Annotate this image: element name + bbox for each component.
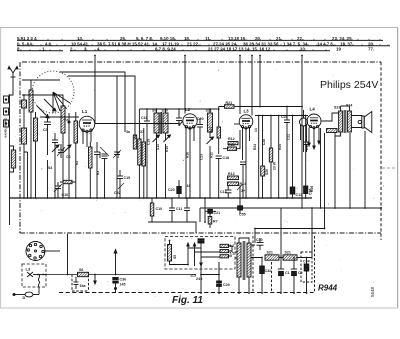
wire L2 drops [186,143,190,198]
junction dots IF strip [146,106,307,199]
svg-text:C10: C10 [62,193,69,197]
wire S10 drop [165,144,167,198]
wire HT riser x281 [280,208,282,258]
wire loop y72 [60,72,125,95]
wire loop y76 [68,76,135,98]
wire L4 plate [321,113,339,121]
bottom bus [59,292,314,294]
wire top feed x240 [239,56,241,115]
AVC wire y109 [139,109,218,128]
trimmer C27 [237,184,243,198]
svg-text:C2: C2 [298,271,303,275]
junction top x240 [239,55,241,57]
choke S21 [265,255,279,260]
mains transformer core [243,241,245,280]
svg-text:C13: C13 [296,193,303,197]
wire S1 top [22,80,31,90]
tube L1 pins [83,131,91,147]
svg-text:5 91 2 3 4: 5 91 2 3 4 [17,36,37,41]
padder C19 [113,150,121,198]
svg-text:C20: C20 [168,188,175,192]
resistor R13b [150,198,154,222]
svg-text:L4: L4 [310,107,316,112]
pointer arrow up [114,250,117,275]
capacitor C8 [94,142,100,198]
wire grid L4 [303,110,305,152]
plug D [13,287,39,297]
svg-text:9 10 16.: 9 10 16. [160,36,176,41]
capacitor C24 [284,107,290,199]
ruler line C [17,50,330,52]
capacitor C26b [304,136,310,152]
svg-text:C22: C22 [287,134,291,140]
capacitor C6 [44,114,51,133]
wire S10 leads [165,109,167,140]
dashed guard x271 [271,262,273,293]
tube L1 [79,116,95,132]
wire socket lead [45,250,60,252]
svg-text:R19: R19 [305,144,309,150]
svg-text:C15: C15 [124,176,131,180]
output transformer primary S23 [339,111,343,132]
capacitor C18a [216,156,222,198]
trap Fz [68,113,70,123]
tuning gang (dashed circle) [32,71,74,113]
AVC wire y123.5 [95,123,179,125]
svg-text:19: 19 [336,46,341,51]
svg-text:S24: S24 [346,104,352,108]
wire R1 [75,112,77,198]
svg-text:23. 24. 25.: 23. 24. 25. [332,36,353,41]
flexible lead [38,275,39,288]
wire mains drop x200 [200,266,202,293]
ruler line A [17,39,383,41]
junction dots left bus [9,94,145,199]
resistor R12 [228,142,238,145]
wire S2 [35,112,37,198]
junction top x185 [184,55,186,57]
resistor R1 [74,121,78,143]
page edge left [0,28,2,309]
wire osc feed verticals [117,76,135,150]
capacitor C30 [257,238,264,250]
wiper arrow [94,275,96,285]
coil S7 [133,135,136,149]
wire S11 drop [209,146,211,198]
capacitor C35 [74,277,79,289]
wire top feed x185 [184,56,186,114]
capacitor C1 electrolytic [278,258,284,294]
wire top feed x302 [301,56,303,209]
wire choke link [279,208,312,258]
svg-text:L2: L2 [185,107,191,112]
junction top x95 [94,55,96,57]
svg-text:Philips 254V: Philips 254V [320,79,378,91]
IF coil S10 [163,113,168,133]
svg-text:R21: R21 [226,101,233,105]
svg-text:R14: R14 [240,182,247,186]
dashed guard x253 [252,236,254,293]
svg-text:C24: C24 [281,115,288,119]
mains transformer T primary [237,243,241,277]
dashed guard x314 [314,236,316,293]
svg-text:C55: C55 [239,213,246,217]
svg-text:14 4 7 6.: 14 4 7 6. [317,41,334,46]
capacitor C34 dashed cell [301,252,312,293]
IF core [160,112,161,134]
svg-text:245: 245 [196,277,202,281]
junction dots AVC [116,123,180,125]
switch contact arrow b [64,145,71,152]
capacitor C7 [52,133,58,150]
wire prim return [335,132,341,208]
chassis boundary left dash-dot [19,62,21,233]
svg-text:AANSLUITING: AANSLUITING [4,117,8,138]
svg-text:C11: C11 [176,207,182,211]
mains resistor R5 [220,250,229,253]
svg-text:4 6.: 4 6. [45,41,52,46]
wire diode taps [301,125,307,140]
selector wiring [188,239,232,258]
resistor R14 [228,182,239,186]
wire transformer taps [235,238,249,293]
svg-text:C32: C32 [265,269,272,273]
junction dots sub [204,197,241,223]
wire C6 drop [47,133,49,198]
wire S16 taps [10,146,14,172]
resistor R21 [225,105,235,109]
loudspeaker box L3 dashed [22,264,46,287]
svg-text:R17: R17 [209,126,213,133]
dashed drop x67.5 [67,234,69,274]
svg-text:2.: 2. [70,46,74,51]
tube L4 [307,114,321,129]
svg-text:26.: 26. [120,36,126,41]
trimmer cap C6 [57,144,65,158]
svg-text:13 18 16: 13 18 16 [228,36,246,41]
svg-text:R11: R11 [210,152,214,158]
switch arrow S10 [164,135,171,142]
wire L1 cathode resistor drop [89,142,91,198]
terminal strip E [22,100,27,108]
svg-text:S23: S23 [334,106,340,110]
svg-text:7 51 8 38 H 15 52 41.: 7 51 8 38 H 15 52 41. [108,41,150,46]
wire y80 left [22,79,60,81]
capacitor C36 [113,278,118,293]
capacitor C14 [225,186,232,198]
wire HT feed [251,229,262,258]
svg-text:C34: C34 [303,260,310,264]
wire osc coil drops [135,128,144,198]
svg-text:5. 6. 7 8.: 5. 6. 7 8. [136,36,153,41]
capacitor C17 [176,109,183,126]
svg-text:34a: 34a [80,284,87,288]
resistor R2 [89,147,93,168]
capacitor C21 electrolytic [205,198,216,222]
svg-text:R26: R26 [310,186,314,192]
resistor R9 [60,180,76,183]
wire left column [23,95,25,198]
capacitor C29 [217,281,222,286]
ground bus [10,197,313,199]
svg-text:C36: C36 [120,278,127,282]
junction dots right rail [301,106,382,209]
capacitor C20 [197,118,203,198]
wire antenna lead [10,87,14,95]
mains resistor R4 [220,244,229,247]
svg-text:R15: R15 [165,146,169,152]
svg-text:S21: S21 [285,251,291,255]
tube L3 [239,115,253,129]
wire v278 [278,116,280,199]
svg-text:20.: 20. [255,36,261,41]
svg-text:5.2: 5.2 [230,244,235,248]
wire mid drops [55,122,69,198]
svg-text:22.: 22. [297,36,303,41]
svg-text:S21: S21 [267,251,273,255]
capacitor C32 electrolytic [260,258,265,294]
aerial terminal block [4,96,9,127]
B+ wire y103 [240,106,302,108]
wire sec return [349,133,351,208]
page edge right [397,28,399,309]
gang trimmer arrow 2 [44,99,56,111]
svg-text:C10: C10 [156,207,163,211]
mains coil S5 [168,241,189,265]
scan speckle [15,59,384,296]
svg-text:R25: R25 [278,144,282,150]
svg-text:C23: C23 [200,154,204,160]
svg-text:21 27 24 18 17 13 14. 15. 16 1: 21 27 24 18 17 13 14. 15. 16 12 [208,46,271,51]
tube L3 pins [243,128,250,146]
voice coil X [27,272,33,277]
svg-text:1.: 1. [42,46,46,51]
resistor R18 [228,147,237,150]
interference cap C16b [198,239,204,243]
chassis boundary bottom dash-dot [20,232,381,234]
svg-text:C21: C21 [214,211,221,215]
voltage selector box dashed [165,237,235,270]
wire mains cross [201,262,219,275]
junction dots bottom [37,207,325,294]
main bottom wire [46,274,196,276]
svg-text:3.: 3. [84,46,88,51]
svg-text:4.: 4. [97,46,101,51]
capacitor C13 electrolytic [290,116,295,199]
svg-text:11.: 11. [205,36,211,41]
wire R18 [223,130,240,149]
trimmer C10a [54,182,62,198]
resistor R22 [327,129,338,133]
selector contact 2 [193,243,195,266]
svg-text:2+: 2+ [241,189,245,193]
antenna [8,67,18,88]
wire grid L1 [40,116,79,118]
svg-text:S5: S5 [173,255,177,259]
faint dashed stub right [382,167,397,169]
svg-text:R7: R7 [213,220,218,224]
svg-text:15.: 15. [184,36,190,41]
svg-text:L3: L3 [26,267,31,272]
svg-text:23 W: 23 W [273,161,277,170]
coil S0 [22,128,27,144]
svg-text:145: 145 [120,283,126,287]
coil S1 [29,90,33,112]
svg-text:S20: S20 [265,169,269,175]
wire R21 right [234,106,240,108]
wire mains drop x219 [218,262,220,293]
capacitor C15 [117,170,123,184]
svg-text:S6: S6 [79,268,83,272]
svg-text:R944: R944 [318,284,338,293]
vertical component labels [75,134,309,175]
switch contact arrow a [52,145,59,152]
resistor R7 [208,213,212,228]
gang trimmer arrow 1 [37,106,49,118]
page edge top [0,27,398,29]
svg-text:C19: C19 [147,139,151,145]
wire S11 leads [209,109,211,138]
tube socket bottom view [26,242,45,261]
svg-text:C28: C28 [262,139,266,145]
page edge bottom [0,307,398,309]
capacitor C12 [184,198,190,222]
wire to speaker [351,116,361,128]
capacitor C11 [169,198,175,222]
resistor R13 [228,176,239,180]
svg-text:R10: R10 [186,152,190,158]
wire L3 grid [234,123,239,125]
padder C18 [100,147,109,198]
left sub-bus y222 [148,222,196,233]
capacitor C35b electrolytic [238,198,243,214]
wire top feed x95 [94,56,96,125]
gang rotor sector [53,92,70,113]
svg-text:6.7 8. 9 24: 6.7 8. 9 24 [155,46,176,51]
ruler row B numbers [17,41,374,46]
svg-text:C30: C30 [256,238,263,242]
wire top feed x260 [259,56,261,107]
wire L3 drops [243,141,247,198]
tube L4 pin arrows [308,128,320,149]
mains transformer secondary [247,243,251,277]
svg-text:C3: C3 [43,128,48,132]
svg-text:R18: R18 [228,143,235,147]
capacitor C16 [144,109,150,198]
wire left drop [9,198,11,225]
svg-text:3a: 3a [126,130,131,134]
capacitor C21 [240,162,246,198]
dashed pot box [72,275,89,292]
rail y115 [255,115,308,117]
IF coil S9 [154,113,159,133]
main schematic [20,56,397,241]
wire B+ feed x324 [255,133,325,229]
capacitor C20b electrolytic [177,180,181,198]
svg-text:18. 37.: 18. 37. [340,41,353,46]
trimmer C52 [118,183,124,198]
svg-text:21 22.: 21 22. [187,41,199,46]
switch S6 [78,272,89,276]
IF coil S11 [208,113,213,132]
coil S3 [61,106,65,133]
wire S3 [22,95,63,198]
svg-text:77.: 77. [368,46,374,51]
wire speaker return [364,131,366,208]
coil S8a [142,142,145,166]
ruler line B [17,45,390,47]
svg-text:C14: C14 [220,190,227,194]
wire R21 left [219,107,225,128]
junction left col [23,94,28,199]
tube L2 pins [186,128,194,146]
wire L4 screen drop [320,128,322,208]
svg-text:R12: R12 [228,137,235,141]
tube L2 [183,114,197,129]
output transformer core [344,110,346,133]
svg-text:5648: 5648 [370,286,375,297]
wire S1 bottom [30,112,32,198]
tube L4 diode unit [300,118,308,126]
svg-text:L3: L3 [244,109,250,114]
wire left rail [9,95,11,198]
selector contact 1 [187,243,189,265]
resistor R17 [217,127,221,138]
ruler row A numbers [17,36,353,41]
ruler ticks [19,39,388,51]
switch arrow S11 [207,137,214,144]
svg-text:R24: R24 [253,144,257,150]
svg-text:R3: R3 [96,171,100,175]
svg-text:Fz: Fz [64,118,68,122]
svg-text:S4: S4 [48,166,52,170]
svg-text:C1: C1 [285,271,290,275]
coil S2 [34,118,38,141]
mains resistor R6 [220,255,229,258]
svg-text:C52: C52 [114,191,121,195]
chassis boundary top dash-dot [22,61,381,63]
svg-text:37: 37 [140,130,144,134]
svg-text:21.: 21. [276,36,282,41]
junction top x302 [301,55,303,57]
svg-text:C20: C20 [197,117,204,121]
svg-text:13.: 13. [77,36,83,41]
wire R17 drop [218,138,220,154]
coil S16 far left [11,150,15,168]
capacitor C2 electrolytic [291,258,297,294]
resistor R20 [269,116,272,199]
svg-text:R13: R13 [228,172,235,176]
svg-text:Fig. 11: Fig. 11 [172,295,203,306]
svg-text:5.5: 5.5 [230,252,235,256]
wire x27 stub [24,152,28,198]
svg-text:D: D [23,295,26,300]
capacitor C26 electrolytic [304,116,308,199]
svg-text:L1: L1 [82,109,88,114]
svg-text:R2: R2 [75,161,79,165]
switch arrow S9 [153,135,160,142]
choke S22 [283,255,297,260]
svg-text:C16: C16 [141,116,148,120]
svg-text:10.: 10. [300,46,306,51]
wire v258 [258,116,260,199]
svg-text:C29: C29 [223,283,230,287]
svg-text:C21: C21 [116,152,120,158]
wire top feed x252 [251,56,253,116]
B+ rail y206 [200,208,381,222]
coil S20 [261,116,265,199]
output transformer secondary S24 [347,111,351,132]
